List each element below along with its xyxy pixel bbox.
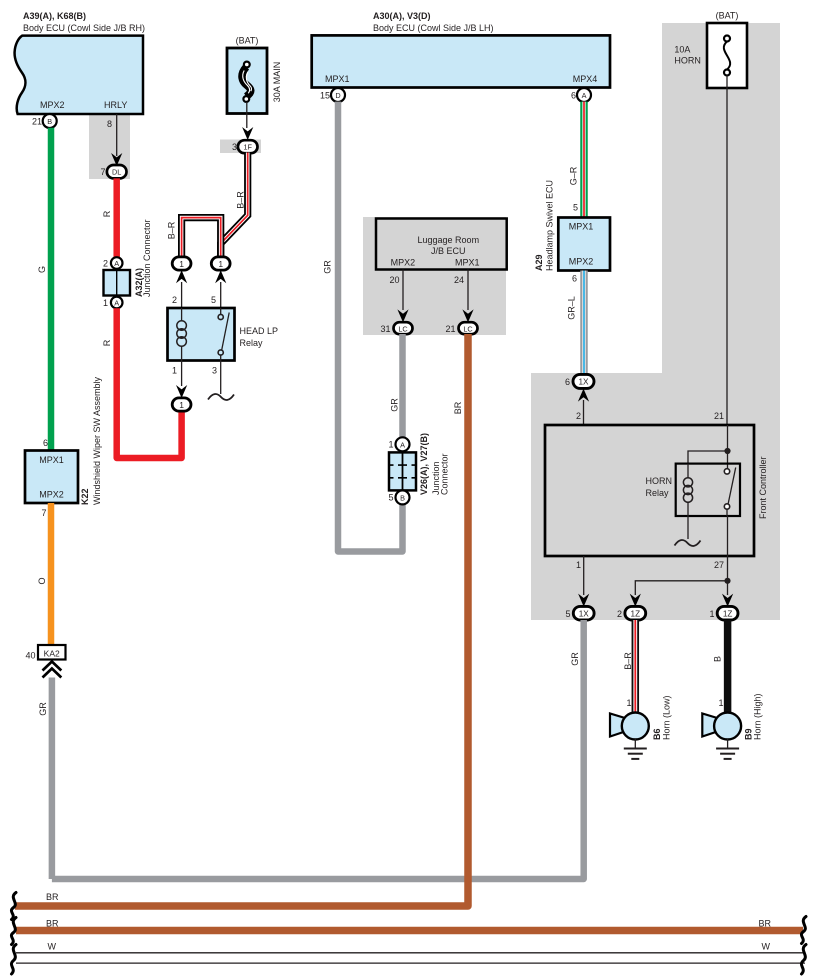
svg-text:MPX2: MPX2	[569, 257, 594, 267]
gray shade behind Luggage Room J/B ECU	[363, 217, 506, 335]
svg-text:MPX2: MPX2	[39, 490, 64, 500]
arrow up into right connector 1	[215, 270, 226, 283]
svg-text:1: 1	[103, 298, 108, 308]
svg-text:J/B ECU: J/B ECU	[431, 246, 466, 256]
pin 1 (A)	[388, 437, 409, 451]
svg-text:A: A	[114, 259, 119, 268]
wire B-R U-shape to HEAD LP relay pin 2 connector	[182, 218, 221, 257]
wire BR brown bus full width	[16, 927, 803, 935]
svg-text:B: B	[47, 117, 52, 126]
svg-text:O: O	[37, 577, 47, 584]
wire B black from 1(1Z) to horn B9	[724, 620, 732, 714]
ground below horn B6	[624, 739, 647, 759]
svg-text:HRLY: HRLY	[104, 100, 127, 110]
pin 6 (A)	[571, 88, 591, 102]
svg-text:HORN: HORN	[674, 56, 701, 66]
Body ECU (Cowl Side J/B RH) box A39(A),K68(B)	[15, 11, 145, 114]
svg-text:Relay: Relay	[646, 488, 670, 498]
svg-text:W: W	[48, 942, 57, 952]
svg-text:GR: GR	[323, 260, 333, 274]
svg-text:Body ECU (Cowl Side J/B RH): Body ECU (Cowl Side J/B RH)	[23, 23, 145, 33]
svg-text:MPX1: MPX1	[569, 222, 594, 232]
svg-text:HEAD LP: HEAD LP	[240, 326, 279, 336]
svg-text:1: 1	[626, 698, 631, 708]
svg-text:MPX4: MPX4	[573, 74, 598, 84]
arrow into connector 1	[176, 385, 187, 398]
arrow into 5(1X)	[578, 594, 589, 607]
pin 21 (B) of body ECU RH	[32, 114, 57, 128]
arrow into DL	[111, 153, 122, 166]
wire relay pin 2 to connector	[181, 282, 183, 308]
relay switch	[218, 308, 229, 361]
svg-text:MPX2: MPX2	[40, 100, 65, 110]
svg-text:1: 1	[388, 440, 393, 450]
svg-text:Front Controller: Front Controller	[758, 456, 768, 519]
double chevron arrow below KA2	[43, 662, 62, 678]
wire GR gray from 15(D) to V26 junction connector pin 5(B)	[338, 102, 403, 552]
svg-text:1: 1	[172, 366, 177, 376]
connector 5 (1X)	[565, 606, 594, 620]
arrow into 1F	[242, 127, 253, 140]
svg-text:DL: DL	[112, 168, 121, 177]
fuse box 10A HORN	[707, 23, 747, 88]
arrow into 31 LC	[397, 309, 408, 322]
break squiggle left W line	[11, 945, 16, 975]
svg-text:(BAT): (BAT)	[236, 36, 259, 46]
svg-text:D: D	[335, 91, 340, 100]
svg-text:GR–L: GR–L	[567, 296, 577, 320]
svg-text:1Z: 1Z	[723, 609, 733, 618]
svg-text:21: 21	[714, 411, 724, 421]
horn B9 (High)	[702, 713, 741, 740]
connector 1 (right, relay pin 5)	[211, 257, 230, 270]
break squiggle left BR line 1	[11, 893, 16, 920]
svg-text:W: W	[762, 942, 771, 952]
svg-text:GR: GR	[390, 398, 400, 412]
svg-text:8: 8	[107, 119, 112, 129]
pin 15 (D)	[320, 88, 345, 102]
wire down to 1(1Z)	[727, 581, 729, 595]
wire from dot to horn relay coil	[688, 451, 728, 464]
ground below horn B9	[716, 739, 739, 759]
wire relay pin 3 squiggle continuation	[208, 361, 234, 400]
svg-text:5: 5	[211, 295, 216, 305]
svg-text:R: R	[102, 339, 112, 346]
wire R red from DL to A32(A)	[113, 178, 120, 257]
wire B-R from 2(1Z) to horn B6	[632, 620, 640, 714]
horn relay coil ground squiggle	[675, 516, 701, 546]
horn B6 (Low)	[610, 713, 649, 740]
svg-text:Windshield Wiper SW Assembly: Windshield Wiper SW Assembly	[92, 376, 102, 505]
HORN relay box	[646, 464, 741, 516]
svg-text:6: 6	[565, 377, 570, 387]
break squiggle right BR line 2	[801, 917, 806, 944]
svg-text:5: 5	[565, 609, 570, 619]
svg-text:G: G	[37, 266, 47, 273]
connector 40 KA2	[25, 645, 65, 661]
svg-text:Luggage Room: Luggage Room	[418, 235, 480, 245]
svg-text:B6: B6	[652, 728, 662, 740]
svg-text:1X: 1X	[578, 378, 589, 387]
svg-text:MPX1: MPX1	[455, 258, 480, 268]
wire switch down through pin 27	[727, 516, 729, 581]
svg-text:A: A	[582, 91, 587, 100]
svg-text:BR: BR	[46, 892, 59, 902]
svg-text:6: 6	[43, 438, 48, 448]
svg-text:KA2: KA2	[44, 649, 60, 659]
svg-text:Junction Connector: Junction Connector	[142, 219, 152, 297]
junction connector A32(A) pin 1(A)	[103, 297, 123, 309]
svg-text:B: B	[400, 493, 405, 502]
wire relay pin 5 to connector	[220, 282, 222, 308]
svg-text:3: 3	[232, 142, 237, 152]
junction connector body	[389, 452, 416, 490]
svg-text:A30(A), V3(D): A30(A), V3(D)	[373, 11, 431, 21]
svg-text:A39(A), K68(B): A39(A), K68(B)	[23, 11, 86, 21]
svg-text:24: 24	[454, 275, 464, 285]
svg-text:10A: 10A	[674, 45, 690, 55]
connector 21 (LC)	[445, 322, 477, 334]
svg-text:V26(A), V27(B): V26(A), V27(B)	[419, 433, 429, 495]
svg-text:MPX1: MPX1	[325, 74, 350, 84]
svg-text:LC: LC	[463, 324, 472, 333]
wire R red from A32(A) to HEAD LP relay connector 1	[117, 308, 182, 458]
arrow into 1(1Z)	[722, 594, 733, 607]
wire GR gray from 31(LC) to V26 pin 1(A)	[399, 334, 406, 438]
svg-text:Body ECU (Cowl Side J/B LH): Body ECU (Cowl Side J/B LH)	[373, 23, 494, 33]
pin 20 wire	[402, 270, 404, 311]
wire B-R from 1F to HEAD LP relay pin 5 connector	[221, 153, 248, 257]
svg-text:5: 5	[388, 493, 393, 503]
svg-text:6: 6	[571, 91, 576, 101]
relay coil	[177, 308, 187, 361]
svg-text:A29: A29	[534, 254, 544, 271]
svg-text:Relay: Relay	[240, 338, 264, 348]
connector 7 (DL)	[100, 165, 126, 178]
connector 3 (1F)	[232, 140, 258, 153]
svg-text:2: 2	[103, 259, 108, 269]
svg-text:31: 31	[380, 324, 390, 334]
branch wire to 2(1Z)	[635, 581, 727, 595]
wire BR brown from 21(LC) to bottom run	[15, 334, 468, 906]
svg-text:27: 27	[714, 560, 724, 570]
svg-text:(BAT): (BAT)	[716, 11, 739, 21]
svg-text:1Z: 1Z	[631, 609, 641, 618]
svg-text:21: 21	[445, 324, 455, 334]
wire GR gray from 5(1X) to bottom run	[52, 620, 584, 879]
svg-text:GR: GR	[38, 702, 48, 716]
svg-text:B–R: B–R	[236, 191, 246, 209]
arrow into 21 LC	[462, 309, 473, 322]
connector 1 (left, relay pin 2)	[172, 257, 191, 270]
wire from 30A MAIN to 1F	[246, 102, 248, 128]
gray shade behind connector 1F	[220, 140, 261, 154]
svg-text:2: 2	[172, 295, 177, 305]
horn relay switch	[724, 468, 735, 517]
pin 5 (B)	[388, 490, 409, 504]
fusible link 30A MAIN box	[227, 48, 267, 114]
wire pin 8 HRLY to DL	[116, 114, 118, 156]
svg-text:LC: LC	[398, 324, 407, 333]
svg-text:21: 21	[32, 117, 42, 127]
svg-text:3: 3	[212, 366, 217, 376]
svg-text:Horn (Low): Horn (Low)	[662, 695, 672, 740]
svg-text:1X: 1X	[579, 609, 590, 618]
svg-text:B–R: B–R	[623, 652, 633, 670]
wire front controller pin 1 down to 5(1X)	[583, 556, 585, 595]
svg-text:1F: 1F	[243, 143, 252, 152]
svg-text:2: 2	[617, 609, 622, 619]
wire relay pin 1 down	[181, 361, 183, 387]
arrow up into left connector 1	[176, 270, 187, 283]
svg-text:R: R	[102, 210, 112, 217]
connector 2 (1Z)	[617, 606, 646, 620]
arrow up into 6(1X)	[578, 389, 589, 402]
break squiggle right W line	[801, 945, 806, 975]
svg-text:HORN: HORN	[646, 476, 673, 486]
wire G green from pin 21(B) to K22 pin 6	[48, 128, 55, 450]
headlamp swivel ECU A29 box	[558, 218, 610, 271]
pin 24 wire	[467, 270, 469, 311]
svg-text:B: B	[713, 656, 723, 662]
wire GR gray from KA2 to bottom run	[49, 678, 56, 880]
svg-text:15: 15	[320, 91, 330, 101]
wire W white bus full width	[16, 953, 805, 963]
svg-text:B–R: B–R	[167, 221, 177, 239]
connector 1 (relay pin 1)	[172, 398, 191, 411]
svg-text:K22: K22	[80, 488, 90, 505]
svg-text:MPX2: MPX2	[391, 258, 416, 268]
svg-text:1: 1	[179, 400, 184, 410]
arrow into 2(1Z)	[630, 594, 641, 607]
wire O orange from K22 pin 7 to KA2	[48, 503, 55, 645]
svg-text:A: A	[114, 299, 119, 308]
svg-text:MPX1: MPX1	[39, 455, 64, 465]
junction dot below pin 27	[724, 578, 730, 584]
horn relay coil	[683, 464, 692, 516]
svg-text:BR: BR	[453, 401, 463, 414]
svg-text:Horn (High): Horn (High)	[753, 693, 763, 740]
svg-text:30A MAIN: 30A MAIN	[272, 62, 282, 103]
svg-text:1: 1	[718, 698, 723, 708]
svg-text:7: 7	[100, 167, 105, 177]
svg-text:Headlamp Swivel ECU: Headlamp Swivel ECU	[545, 180, 555, 271]
connector 31 (LC)	[380, 322, 412, 334]
junction connector A32(A) pin 2(A)	[103, 257, 123, 269]
svg-text:A: A	[400, 440, 405, 449]
svg-text:1: 1	[218, 259, 223, 269]
gray shade behind HRLY pin 8	[89, 114, 130, 179]
connector 1 (1Z)	[709, 606, 738, 620]
wire front controller pin 2 to 6(1X)	[583, 400, 585, 425]
wire from 10A HORN fuse to front controller pin 21	[726, 76, 728, 426]
svg-text:6: 6	[572, 274, 577, 284]
svg-text:20: 20	[389, 275, 399, 285]
svg-text:5: 5	[573, 203, 578, 213]
break squiggle left BR line 2	[11, 918, 16, 945]
svg-text:Connector: Connector	[440, 453, 450, 495]
wire GR-L from A29 pin 6 to 6(1X)	[580, 271, 588, 375]
svg-text:G–R: G–R	[569, 166, 579, 185]
junction connector A32(A) body	[104, 270, 131, 296]
svg-text:40: 40	[25, 651, 35, 661]
svg-text:2: 2	[576, 411, 581, 421]
svg-text:1: 1	[576, 560, 581, 570]
svg-text:1: 1	[179, 259, 184, 269]
svg-text:GR: GR	[570, 652, 580, 666]
gray shade around Front Controller	[531, 23, 780, 620]
K22 box	[25, 451, 78, 504]
svg-text:1: 1	[709, 609, 714, 619]
wire pin 21 into box, junction dot	[727, 425, 729, 471]
svg-text:7: 7	[41, 508, 46, 518]
